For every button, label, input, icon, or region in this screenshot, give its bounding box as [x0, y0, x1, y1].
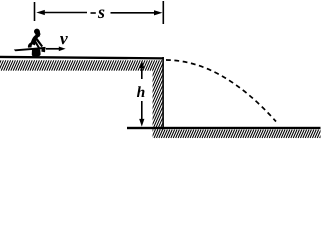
cliff wall hatching — [126, 71, 215, 130]
dimension s: right arrow — [111, 12, 157, 14]
skier figure on sled — [14, 29, 46, 57]
lower ground surface line — [127, 127, 321, 129]
dimension s: left arrow — [36, 10, 45, 15]
dimension s: left tick — [34, 2, 36, 21]
label h — [137, 86, 145, 97]
label s — [98, 10, 105, 19]
lower ground hatching — [149, 130, 326, 138]
dimension s: small dash before label — [91, 12, 96, 14]
dimension s: right tick — [162, 1, 164, 24]
front foot — [41, 47, 45, 52]
dashed trajectory — [166, 60, 276, 122]
velocity arrow — [46, 48, 62, 50]
hip and rear knee — [28, 42, 33, 47]
arms — [35, 37, 43, 48]
h dimension: up arrow — [141, 64, 143, 79]
label v — [60, 36, 68, 44]
head — [34, 29, 40, 35]
upper ground hatching — [0, 60, 171, 70]
sled board — [14, 47, 46, 51]
cliff face line — [162, 57, 164, 130]
legs and boots — [32, 49, 41, 56]
upper ground surface line — [0, 56, 164, 60]
neck — [35, 31, 41, 36]
h dimension: down arrow — [141, 101, 143, 122]
torso — [31, 33, 41, 45]
